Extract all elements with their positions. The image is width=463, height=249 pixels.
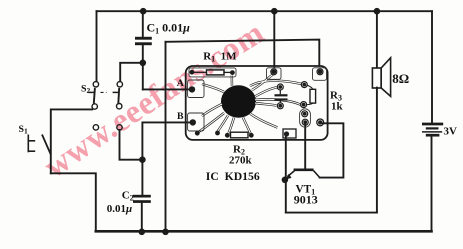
- capacitor C1: [135, 37, 152, 45]
- svg-text:S2: S2: [81, 84, 90, 96]
- capacitor on board: [275, 94, 288, 100]
- IC board traces: [199, 75, 302, 134]
- wire collector to output pad: [320, 123, 344, 177]
- pad island R1 row: [189, 68, 236, 77]
- wire node A horizontal to pad A: [143, 88, 190, 90]
- switch S2 (double pole): [88, 82, 122, 131]
- wire C2 bottom lead: [141, 202, 143, 231]
- junction dot ground line on rail: [162, 229, 169, 236]
- junction dot B/C2/S2 node: [139, 156, 146, 163]
- svg-text:1k: 1k: [331, 101, 344, 113]
- IC board trace cores: [199, 75, 302, 134]
- wire speaker line left to emitter net: [286, 212, 377, 214]
- pad island B: [188, 113, 204, 131]
- pad dot B: [190, 119, 196, 125]
- wire battery positive lead from top rail: [431, 11, 433, 123]
- svg-text:B: B: [177, 111, 184, 122]
- battery 3V: [422, 124, 443, 135]
- junction dot C2 on ground rail: [139, 229, 146, 236]
- wire transistor base lead: [304, 125, 306, 170]
- svg-text:A: A: [177, 78, 184, 89]
- wire C1 top lead: [142, 11, 144, 37]
- switch S1 knife switch: [28, 135, 51, 155]
- svg-text:C1 0.01μ: C1 0.01μ: [147, 21, 191, 36]
- pad ring R3 bottom: [301, 102, 307, 108]
- pad ring output right: [317, 119, 324, 126]
- ground square pad on board: [283, 129, 296, 138]
- wire ground horizontal y=41.8 to board pad: [166, 40, 320, 66]
- pad dot R2 right: [249, 133, 254, 138]
- wire S2 right bottom contact down and right to junction: [120, 130, 143, 160]
- wire speaker bottom lead down: [376, 88, 378, 213]
- junction dot top rail C1: [140, 8, 147, 15]
- speaker: [372, 58, 390, 97]
- junction dot C1/S2/A node: [140, 60, 147, 67]
- wire C1 bottom lead down to A corner: [142, 45, 144, 89]
- pad dot bottom left: [215, 131, 220, 136]
- wire battery negative lead: [431, 137, 433, 232]
- capacitor C2: [133, 195, 151, 203]
- svg-text:270k: 270k: [229, 155, 253, 167]
- svg-text:3V: 3V: [444, 126, 458, 138]
- svg-text:R1 1M: R1 1M: [203, 51, 237, 64]
- pad island V+: [267, 68, 282, 80]
- IC board outline: [186, 66, 328, 140]
- svg-text:IC KD156: IC KD156: [206, 170, 260, 183]
- wire left drop to S2 left pole: [96, 11, 98, 81]
- pad pair stadium island: [300, 109, 311, 127]
- capacitor on board pads: [277, 84, 283, 90]
- svg-text:9013: 9013: [294, 193, 318, 207]
- svg-text:0.01μ: 0.01μ: [107, 203, 132, 215]
- pad ring top right: [317, 69, 323, 75]
- junction dot top rail speaker: [374, 8, 381, 15]
- pad dot R1 left: [190, 70, 195, 75]
- wire board pad down through emitter junction to speaker line: [285, 136, 287, 213]
- junction dot top rail board V+: [271, 8, 278, 15]
- transistor VT1: [288, 170, 320, 178]
- pad ring R3 top: [301, 82, 307, 88]
- wire speaker top lead: [376, 11, 378, 67]
- pad dot bottom left corner: [195, 131, 200, 136]
- wire node B horizontal from pad B: [142, 122, 190, 159]
- junction dot emitter to ground wire: [282, 177, 289, 184]
- wire S2 left middle contact left to S1: [51, 109, 92, 173]
- wire board V+ pad drop: [273, 11, 275, 66]
- wire top rail: [97, 10, 433, 12]
- resistor R1 on board: [194, 70, 231, 75]
- pad ring middle: [302, 111, 308, 117]
- resistor R2 on board: [231, 132, 249, 138]
- wire S1 bottom to ground rail: [51, 173, 96, 230]
- pad ring lower / base pad: [302, 119, 308, 125]
- pad island A: [188, 80, 204, 98]
- IC chip blob: [221, 85, 256, 118]
- pad dot A: [189, 86, 195, 92]
- wire junction to S2 right pole top: [120, 63, 143, 82]
- pad ring V+: [271, 69, 277, 75]
- svg-text:S1: S1: [19, 124, 28, 136]
- pad dot R2 left: [225, 133, 230, 138]
- pad dot R1 right: [230, 70, 235, 75]
- wire C2 top lead: [141, 160, 143, 195]
- resistor R3 on board: [310, 89, 316, 103]
- wire ground line vertical x=165.5: [165, 42, 167, 232]
- pad island top right: [313, 68, 327, 81]
- svg-text:8Ω: 8Ω: [392, 71, 409, 86]
- wire bottom ground rail: [96, 230, 432, 233]
